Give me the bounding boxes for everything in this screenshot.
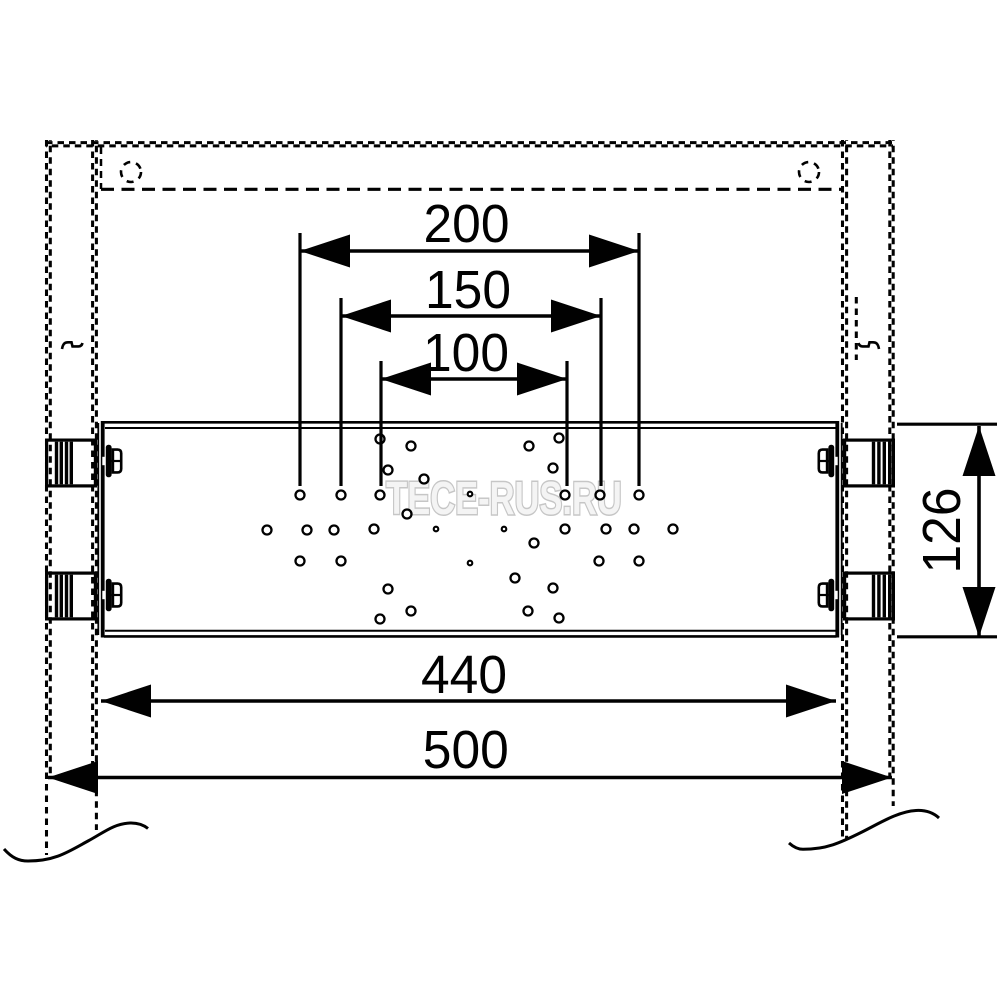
hole bbox=[407, 442, 416, 451]
plate left edge bbox=[97, 423, 99, 635]
hole bbox=[337, 557, 346, 566]
dimension 126 extension lines bbox=[897, 423, 997, 426]
dimension 100 extension lines bbox=[379, 361, 382, 486]
hole bbox=[561, 491, 570, 500]
dimension 500 line bbox=[48, 776, 892, 780]
small hole bbox=[468, 492, 473, 497]
hole bbox=[595, 557, 604, 566]
dimension 440 line bbox=[101, 699, 836, 703]
hole bbox=[337, 491, 346, 500]
hole bbox=[263, 526, 272, 535]
hole bbox=[330, 526, 339, 535]
hole bbox=[407, 607, 416, 616]
clamp block right bottom bbox=[845, 573, 894, 619]
small hole bbox=[502, 527, 507, 532]
small hole bbox=[468, 561, 473, 566]
dimension 200 line bbox=[300, 249, 639, 253]
hole bbox=[596, 491, 605, 500]
left stud break mark bbox=[62, 342, 83, 349]
left wall break wave bbox=[4, 823, 148, 861]
hole bbox=[303, 526, 312, 535]
hole bbox=[296, 491, 305, 500]
bolt left top bbox=[102, 445, 122, 478]
dimension 150 line bbox=[341, 314, 601, 318]
clamp block right top bbox=[845, 440, 894, 486]
hole bbox=[555, 434, 564, 443]
plate top edge lines bbox=[104, 421, 837, 424]
bolt right bottom bbox=[818, 579, 838, 612]
hole bbox=[384, 585, 393, 594]
plate right edge bbox=[841, 423, 843, 635]
bolt right top bbox=[818, 445, 838, 478]
wall stud right inner edge bbox=[843, 140, 847, 839]
mounting rail band left edge bbox=[100, 147, 103, 189]
hole bbox=[376, 615, 385, 624]
svg-text:126: 126 bbox=[912, 488, 972, 574]
bolt left bottom bbox=[102, 579, 122, 612]
wall stud right hidden line bbox=[855, 297, 858, 360]
svg-text:440: 440 bbox=[421, 645, 507, 705]
wall top edge dashed double line bbox=[46, 143, 893, 146]
hole bbox=[530, 539, 539, 548]
hole bbox=[549, 464, 558, 473]
hole bbox=[524, 607, 533, 616]
hole bbox=[555, 614, 564, 623]
right wall break wave bbox=[789, 810, 939, 849]
hole bbox=[376, 491, 385, 500]
small hole bbox=[434, 527, 439, 532]
band hole left (dashed circle) bbox=[121, 162, 141, 182]
wall stud left outer edge bbox=[47, 140, 51, 855]
dimension 200 extension lines bbox=[298, 233, 301, 486]
band hole right (dashed circle) bbox=[799, 162, 819, 182]
hole bbox=[561, 525, 570, 534]
hole bbox=[370, 525, 379, 534]
hole bbox=[669, 525, 678, 534]
hole bbox=[630, 525, 639, 534]
wall stud left inner edge bbox=[93, 140, 97, 830]
hole bbox=[296, 557, 305, 566]
hole bbox=[420, 475, 429, 484]
hole bbox=[635, 491, 644, 500]
svg-text:500: 500 bbox=[423, 720, 509, 780]
hole bbox=[635, 557, 644, 566]
svg-text:150: 150 bbox=[425, 260, 511, 320]
svg-text:100: 100 bbox=[423, 323, 509, 383]
dimension 150 extension lines bbox=[339, 298, 342, 486]
wall stud right outer edge bbox=[890, 140, 893, 806]
hole bbox=[403, 510, 412, 519]
clamp block left bottom bbox=[47, 573, 96, 619]
clamp block left top bbox=[47, 440, 96, 486]
dimension 100 line bbox=[381, 377, 567, 381]
svg-text:200: 200 bbox=[424, 194, 510, 254]
plate bottom edge lines bbox=[105, 630, 836, 632]
hole bbox=[525, 442, 534, 451]
hole bbox=[602, 525, 611, 534]
dimension 126 line bbox=[977, 426, 981, 637]
hole bbox=[376, 435, 385, 444]
hole bbox=[384, 466, 393, 475]
hole bbox=[549, 584, 558, 593]
mounting rail band bottom dashed line bbox=[101, 188, 841, 191]
right stud break mark bbox=[859, 342, 880, 349]
hole bbox=[511, 574, 520, 583]
